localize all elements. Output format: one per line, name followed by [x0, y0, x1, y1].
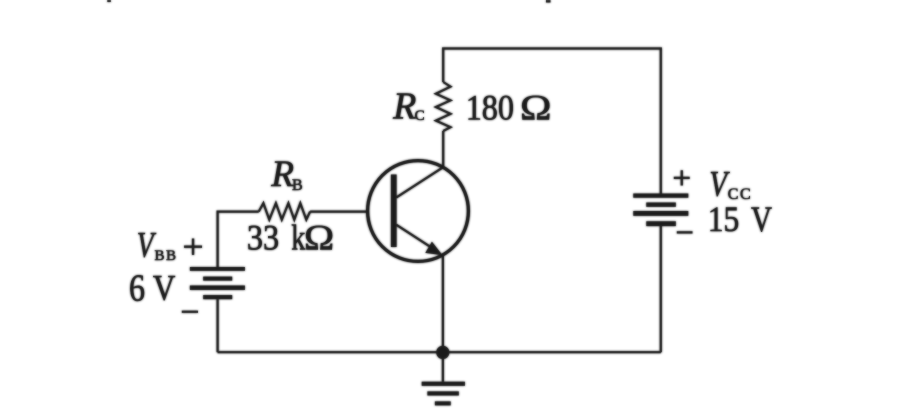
svg-text:6: 6	[129, 268, 145, 310]
svg-text:Ω: Ω	[520, 88, 552, 128]
svg-text:BB: BB	[155, 248, 178, 264]
svg-text:C: C	[415, 108, 425, 124]
svg-text:Ω: Ω	[304, 217, 334, 257]
svg-text:R: R	[392, 85, 416, 127]
svg-text:15: 15	[708, 199, 740, 239]
svg-text:33: 33	[247, 217, 279, 257]
svg-text:V: V	[153, 268, 176, 308]
svg-text:V: V	[137, 224, 157, 264]
svg-text:R: R	[270, 154, 294, 195]
svg-text:B: B	[292, 177, 303, 194]
svg-text:180: 180	[466, 88, 514, 128]
svg-text:V: V	[751, 199, 772, 239]
